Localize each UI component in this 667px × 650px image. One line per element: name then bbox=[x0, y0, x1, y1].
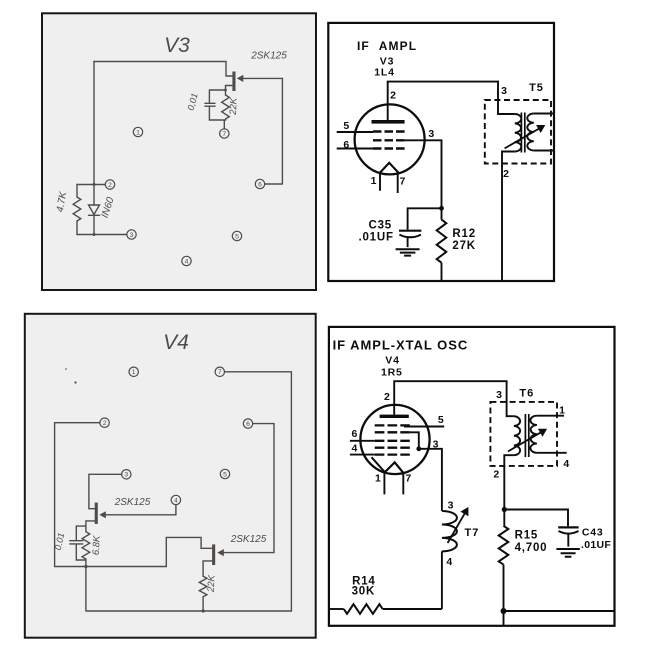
svg-text:C43: C43 bbox=[582, 527, 604, 539]
svg-text:7: 7 bbox=[218, 369, 222, 376]
svg-text:.01UF: .01UF bbox=[358, 231, 393, 243]
svg-text:T5: T5 bbox=[529, 82, 544, 94]
svg-text:5: 5 bbox=[223, 471, 227, 478]
svg-text:2: 2 bbox=[493, 468, 500, 480]
svg-text:1: 1 bbox=[136, 129, 140, 136]
svg-text:3: 3 bbox=[130, 232, 134, 239]
svg-text:1: 1 bbox=[559, 405, 566, 417]
svg-text:6: 6 bbox=[258, 181, 262, 188]
svg-text:5: 5 bbox=[343, 120, 350, 132]
svg-text:V4: V4 bbox=[163, 331, 189, 354]
svg-text:T7: T7 bbox=[464, 527, 479, 539]
svg-text:1R5: 1R5 bbox=[381, 366, 403, 378]
svg-text:2SK125: 2SK125 bbox=[114, 497, 151, 508]
svg-text:2: 2 bbox=[384, 391, 391, 403]
svg-text:IF AMPL: IF AMPL bbox=[357, 39, 417, 53]
svg-text:4,700: 4,700 bbox=[515, 542, 548, 554]
svg-text:R15: R15 bbox=[515, 529, 539, 541]
svg-text:2: 2 bbox=[103, 420, 107, 427]
svg-text:C35: C35 bbox=[369, 219, 393, 231]
svg-text:22K: 22K bbox=[228, 97, 240, 116]
svg-text:3: 3 bbox=[428, 128, 435, 140]
svg-text:3: 3 bbox=[448, 499, 455, 511]
svg-text:7: 7 bbox=[399, 176, 406, 188]
svg-text:V3: V3 bbox=[164, 34, 190, 57]
svg-text:5: 5 bbox=[438, 414, 445, 426]
svg-text:2: 2 bbox=[390, 90, 397, 102]
svg-text:1: 1 bbox=[132, 369, 136, 376]
svg-text:7: 7 bbox=[222, 131, 226, 138]
svg-text:6.8K: 6.8K bbox=[91, 535, 103, 556]
svg-text:T6: T6 bbox=[519, 388, 534, 400]
svg-text:1L4: 1L4 bbox=[374, 67, 395, 79]
svg-text:1: 1 bbox=[375, 473, 382, 485]
svg-text:4: 4 bbox=[174, 497, 178, 504]
svg-text:2SK125: 2SK125 bbox=[230, 534, 267, 545]
svg-text:2SK125: 2SK125 bbox=[250, 51, 287, 62]
svg-text:6: 6 bbox=[343, 139, 350, 151]
svg-text:7: 7 bbox=[405, 473, 412, 485]
svg-text:3: 3 bbox=[496, 389, 503, 401]
svg-text:4: 4 bbox=[563, 458, 570, 470]
svg-text:2: 2 bbox=[108, 182, 112, 189]
svg-text:V4: V4 bbox=[385, 355, 399, 367]
svg-text:.01UF: .01UF bbox=[581, 539, 611, 551]
svg-text:22K: 22K bbox=[206, 574, 218, 593]
svg-text:4: 4 bbox=[446, 556, 453, 568]
svg-text:2: 2 bbox=[503, 168, 510, 180]
svg-text:1: 1 bbox=[371, 175, 378, 187]
svg-text:30K: 30K bbox=[352, 585, 376, 597]
svg-text:6: 6 bbox=[351, 428, 358, 440]
svg-text:6: 6 bbox=[246, 421, 250, 428]
svg-text:5: 5 bbox=[235, 233, 239, 240]
svg-text:4: 4 bbox=[351, 442, 358, 454]
svg-text:R12: R12 bbox=[452, 228, 476, 240]
svg-text:3: 3 bbox=[501, 85, 508, 97]
svg-text:4: 4 bbox=[185, 258, 189, 265]
svg-text:27K: 27K bbox=[452, 240, 476, 252]
svg-text:3: 3 bbox=[124, 472, 128, 479]
svg-text:IF AMPL-XTAL OSC: IF AMPL-XTAL OSC bbox=[333, 338, 469, 353]
svg-text:3: 3 bbox=[433, 439, 440, 451]
